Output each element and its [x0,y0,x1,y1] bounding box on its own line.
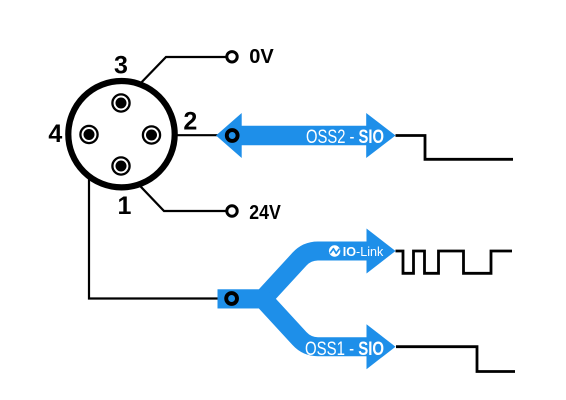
node A [227,130,238,141]
Y splitter upper branch [218,251,369,299]
OSS1 SIO waveform [396,347,515,372]
svg-text:4: 4 [48,120,62,148]
pin 3 [112,94,129,111]
wire pin2 to node A [152,134,233,136]
node B [226,293,237,304]
terminal 0V [227,52,237,62]
wire pin3 to 0V terminal [121,57,227,104]
wire pin4 to node B [89,135,232,299]
svg-text:3: 3 [114,52,128,80]
svg-text:OSS1 - SIO: OSS1 - SIO [305,339,384,360]
wire pin1 to 24V terminal [121,166,227,211]
terminal 24V [227,206,237,216]
svg-text:2: 2 [183,107,197,135]
IO-Link arrowhead [367,229,396,274]
IO-Link logo icon [329,245,340,256]
pin 1 [112,157,129,174]
pin 2 [143,126,160,143]
svg-text:1: 1 [118,192,132,220]
OSS1 arrowhead [367,324,396,369]
svg-text:0V: 0V [249,46,274,68]
connector M12 body [68,81,174,187]
svg-text:24V: 24V [249,202,281,224]
svg-text:IO-Link: IO-Link [343,244,384,259]
OSS2 double arrow [216,113,396,158]
svg-text:OSS2 - SIO: OSS2 - SIO [306,127,384,148]
IO-Link waveform [396,251,513,273]
Y splitter lower branch [218,299,369,347]
OSS2 SIO waveform [396,136,514,160]
pin 4 [80,126,97,143]
